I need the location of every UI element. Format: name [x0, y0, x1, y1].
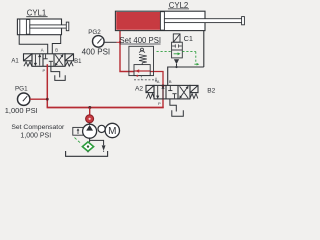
compensator control box: [73, 127, 83, 135]
wire drain branch: [90, 140, 104, 145]
svg-text:B2: B2: [207, 87, 215, 94]
port label A: [41, 48, 44, 53]
compensator indicator: [86, 115, 94, 123]
junction C1 on rod line: [175, 64, 177, 68]
svg-text:Set Compensator: Set Compensator: [11, 124, 65, 131]
valve V1 center position blocked ports: [44, 54, 54, 66]
label B1: [74, 59, 82, 65]
spring V1 right: [65, 62, 73, 66]
wire pump suction: [89, 138, 91, 142]
svg-text:1,000 PSI: 1,000 PSI: [20, 132, 51, 139]
port label P valve V1: [43, 68, 46, 73]
valve V2 center position blocked ports: [168, 86, 176, 99]
label 1,000 PSI: [5, 106, 38, 115]
reducing valve RV1 boundary box: [129, 46, 154, 75]
wire main line to valve V2 P port: [162, 99, 164, 108]
drain arrow to tank: [102, 145, 106, 151]
junction PG2 tap: [119, 41, 121, 43]
tank symbol reservoir: [66, 151, 108, 156]
port label P valve V2: [158, 101, 161, 106]
svg-text:B: B: [169, 79, 172, 84]
label Set Compensator: [11, 124, 65, 139]
wire valve V1 T port to tank: [51, 66, 60, 77]
reducing valve RV1 envelope: [134, 63, 150, 76]
wire red flow through valve V2: [162, 85, 164, 99]
spring V1 left: [24, 62, 32, 66]
wire PG1 to P line: [30, 98, 48, 100]
check triangle C1 outlet: [174, 59, 179, 64]
cylinder CYL2: [115, 11, 244, 30]
pilot dashed line C1 right: [182, 52, 199, 66]
port label B: [55, 48, 58, 53]
wire PG2 sensing line: [104, 41, 120, 43]
junction PG1: [46, 98, 49, 101]
pilot dashed line C1 left: [157, 51, 172, 53]
wire valve V2 A port up to reducing valve: [150, 72, 163, 86]
label B2: [207, 87, 215, 94]
gauge PG1: [18, 93, 30, 105]
junction pump outlet: [88, 106, 91, 109]
svg-text:M: M: [108, 126, 116, 137]
wire reducing valve to CYL2 cap line: [120, 31, 135, 72]
label A1: [11, 59, 19, 65]
svg-text:CYL2: CYL2: [169, 1, 189, 10]
spring RV1: [139, 55, 147, 63]
tank symbol under valve V1: [55, 75, 65, 80]
wire strainer to tank: [87, 151, 89, 152]
port label A valve V2: [157, 79, 160, 84]
svg-text:A2: A2: [135, 85, 143, 92]
junction valve V2 A port: [162, 84, 165, 87]
cylinder CYL1: [17, 19, 68, 35]
label CYL2: [168, 1, 189, 10]
wire main pressure line: [47, 107, 164, 109]
wire valve V2 T port to tank: [170, 99, 176, 112]
pilot drain dashed line RV1: [134, 76, 157, 83]
port label B valve V2: [169, 79, 172, 84]
svg-text:P: P: [158, 101, 161, 106]
coupling circle: [98, 125, 105, 132]
tank symbol under valve V2: [172, 110, 184, 116]
drain dot RV1: [136, 75, 138, 77]
valve V1 right position crossed arrows: [55, 54, 63, 66]
svg-text:A1: A1: [11, 59, 19, 65]
svg-text:PG2: PG2: [88, 29, 101, 36]
filter strainer: [82, 142, 93, 151]
wire CYL1 rod-end to valve B1 port: [52, 35, 60, 54]
wire CYL2 rod-end down: [203, 31, 205, 67]
spring V2 right: [190, 94, 198, 99]
solenoid V1 right: [65, 54, 74, 61]
motor M1: [105, 123, 119, 137]
solenoid V1 left: [24, 54, 33, 61]
svg-text:P: P: [43, 68, 46, 73]
label CYL1: [26, 9, 47, 18]
label Set 400 PSI: [119, 36, 161, 45]
svg-text:400 PSI: 400 PSI: [82, 47, 110, 56]
wire pump to main line: [89, 108, 91, 116]
svg-text:C1: C1: [184, 34, 193, 43]
solenoid V2 right: [190, 85, 198, 92]
valve V1 body: [32, 54, 65, 67]
svg-text:B: B: [55, 48, 58, 53]
wire through reducing valve with flow arrow: [135, 69, 151, 73]
wire rod-end run to valve V2 B port: [168, 67, 204, 85]
label PG2: [88, 29, 101, 36]
svg-text:B1: B1: [74, 59, 82, 65]
svg-text:A: A: [41, 48, 44, 53]
valve V1 left position arrows: [34, 54, 42, 66]
label A2: [135, 85, 143, 92]
spring V2 left: [146, 94, 154, 99]
wire CYL1 cap-end to valve A1 port: [19, 35, 48, 54]
label 400 PSI: [82, 47, 110, 56]
wire indicator to pump: [89, 123, 91, 125]
label C1: [184, 34, 193, 43]
valve C1 body: [172, 42, 183, 58]
svg-text:PG1: PG1: [15, 85, 28, 92]
valve V2 left position arrows: [156, 86, 165, 99]
flow arrow C1: [174, 52, 181, 55]
valve V2 body: [154, 85, 190, 99]
solenoid C1: [173, 34, 180, 42]
pump P1: [83, 124, 97, 138]
case drain dashes: [75, 138, 81, 143]
valve V2 right position crossed arrows: [179, 86, 188, 99]
svg-text:Set 400 PSI: Set 400 PSI: [119, 36, 161, 45]
gauge PG2: [93, 36, 105, 48]
solenoid V2 left: [146, 85, 154, 92]
label PG1: [15, 85, 28, 92]
svg-text:1,000 PSI: 1,000 PSI: [5, 106, 38, 115]
wire valve V1 P port down: [46, 64, 48, 107]
check valve inside RV1: [139, 48, 145, 53]
svg-text:A: A: [157, 79, 160, 84]
